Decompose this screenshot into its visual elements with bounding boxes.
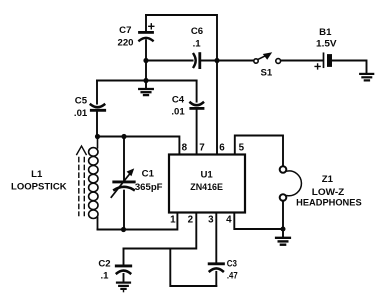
node E junction (C1 top) [121, 134, 126, 139]
svg-text:C4: C4 [172, 94, 185, 105]
pin number labels top [182, 143, 245, 154]
capacitor C7 [139, 15, 154, 81]
svg-text:5: 5 [239, 143, 245, 154]
capacitor C6 [194, 54, 254, 68]
svg-text:L1: L1 [31, 169, 43, 180]
svg-text:.01: .01 [74, 108, 88, 119]
svg-text:.1: .1 [193, 38, 202, 49]
inductor L1 coil [89, 137, 98, 230]
label C2 .1 [98, 258, 110, 281]
label Z1 LOW-Z HEADPHONES [296, 174, 362, 208]
label S1 [261, 68, 273, 79]
battery B1 [315, 53, 329, 69]
svg-text:S1: S1 [261, 68, 273, 79]
IC U1 ZN416E [169, 155, 245, 213]
svg-text:LOW-Z: LOW-Z [312, 187, 345, 198]
wire supply node rail [97, 80, 197, 82]
wire tank top rail to pin 8 [98, 137, 180, 155]
svg-text:4: 4 [226, 214, 232, 225]
headphone terminal bottom [280, 194, 287, 201]
node D junction (coil top / C5) [95, 134, 100, 139]
svg-text:365pF: 365pF [135, 182, 163, 193]
label C6 .1 [191, 26, 203, 50]
label C5 .01 [74, 95, 88, 119]
wire S1 to battery [281, 60, 323, 62]
svg-text:C1: C1 [142, 169, 155, 180]
svg-text:.1: .1 [100, 270, 109, 281]
label L1 LOOPSTICK [11, 169, 67, 192]
wire top rail from C7 top to right corner, down to pin 6 of U1 [146, 15, 217, 155]
wire headphone bottom to ground rail [282, 201, 284, 229]
capacitor C3 on pin 3 [209, 213, 223, 287]
ground (supply node) [139, 81, 153, 96]
svg-text:8: 8 [182, 143, 188, 154]
svg-text:HEADPHONES: HEADPHONES [296, 198, 362, 209]
node B junction (top rail / C6 right) [214, 58, 219, 63]
pin number labels bottom [170, 214, 232, 225]
svg-text:C6: C6 [191, 26, 203, 37]
wire tank bottom rail to pin 1 [98, 213, 178, 230]
wire from node A to C6 [146, 60, 193, 62]
headphone arc Z1 [287, 171, 302, 196]
wire branch down to C3 bottom [170, 249, 216, 287]
ground (headphones) [276, 229, 290, 245]
node F junction (C1 bottom) [121, 227, 126, 232]
wire pin 5 to headphone jack [235, 136, 283, 167]
headphone terminal top [280, 166, 287, 173]
svg-text:220: 220 [117, 37, 133, 48]
node A junction (C7 bottom / C6 feed) [143, 58, 148, 63]
svg-text:C7: C7 [119, 25, 131, 36]
svg-text:C2: C2 [98, 258, 110, 269]
label C3 .47 [227, 258, 238, 281]
label U1 ZN416E [190, 170, 223, 194]
svg-text:6: 6 [219, 143, 225, 154]
variable capacitor C1 [111, 137, 134, 230]
capacitor C4 [190, 81, 203, 155]
ferrite tuning arrow (dashed) [77, 146, 87, 216]
svg-text:C3: C3 [227, 258, 237, 269]
label B1 1.5V [316, 27, 337, 49]
svg-text:.47: .47 [227, 270, 238, 281]
capacitor C2 [116, 249, 130, 283]
wire pin 4 to headphone ground [234, 213, 283, 230]
svg-text:U1: U1 [200, 170, 213, 181]
label C4 .01 [171, 94, 185, 117]
node G junction (phones/pin4/ground) [281, 227, 286, 232]
svg-text:7: 7 [199, 143, 205, 154]
capacitor C5 [91, 81, 105, 137]
svg-text:C5: C5 [75, 95, 88, 106]
wire battery to right ground [332, 61, 367, 74]
ground (C2) [117, 283, 130, 292]
svg-text:1.5V: 1.5V [316, 38, 337, 49]
svg-text:3: 3 [208, 214, 214, 225]
label C7 220 [117, 25, 133, 49]
svg-text:2: 2 [188, 214, 194, 225]
label C1 365pF [135, 169, 163, 194]
svg-text:.01: .01 [171, 106, 185, 117]
svg-text:1: 1 [170, 214, 176, 225]
node C junction (supply node, C5/C4/ground) [143, 78, 148, 83]
svg-text:LOOPSTICK: LOOPSTICK [11, 181, 67, 192]
switch S1 [254, 52, 281, 63]
svg-text:B1: B1 [319, 27, 332, 38]
svg-text:ZN416E: ZN416E [190, 182, 223, 193]
wire pin 2 to C2 / C3 bottom [124, 213, 197, 249]
ground (battery) [360, 74, 373, 81]
svg-text:Z1: Z1 [322, 174, 334, 185]
